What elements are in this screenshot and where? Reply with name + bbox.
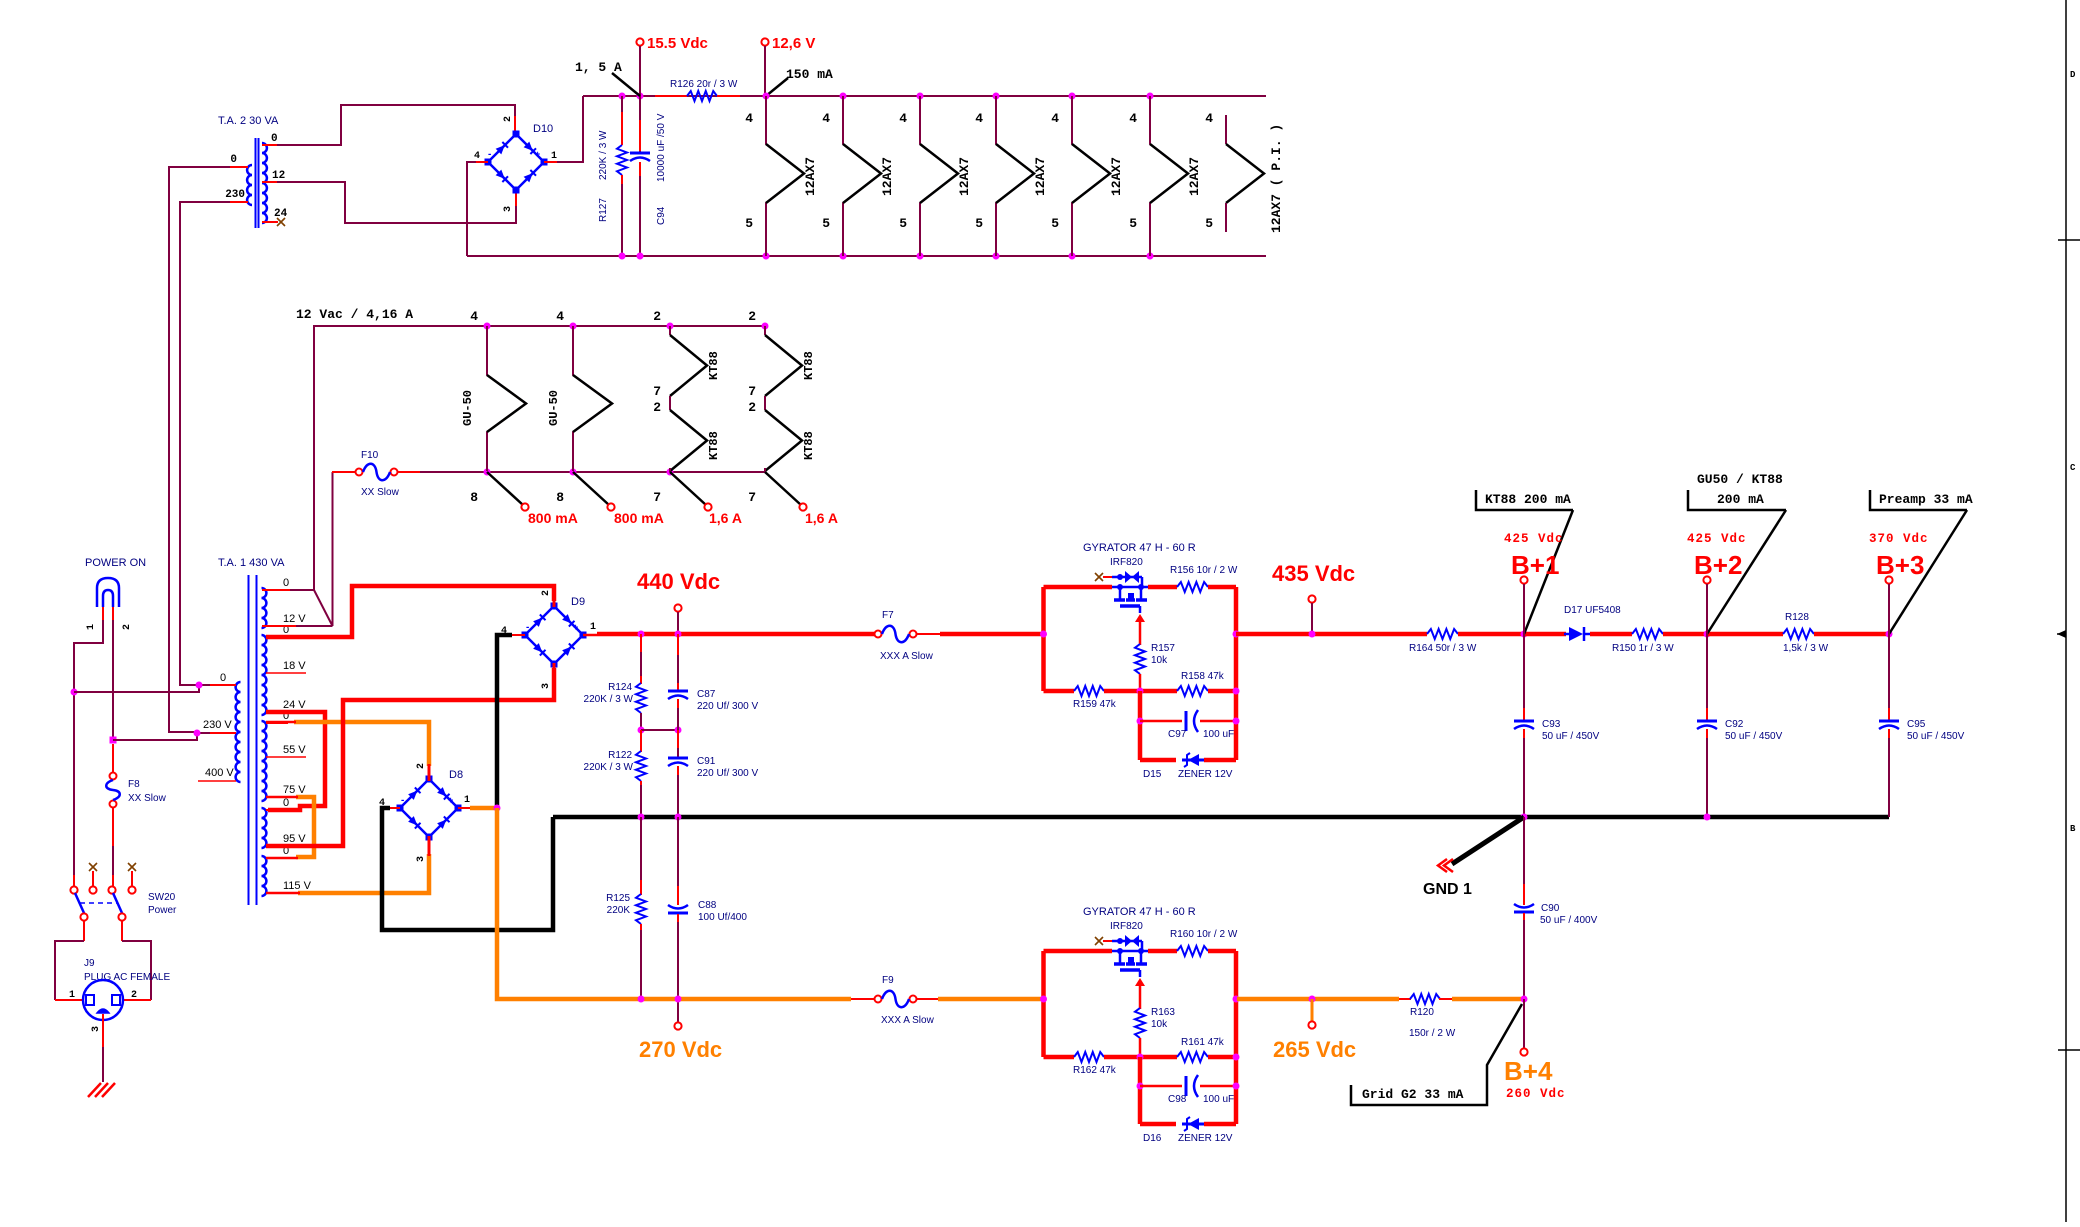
svg-text:+: + xyxy=(448,795,453,805)
svg-text:1,5k / 3 W: 1,5k / 3 W xyxy=(1783,643,1829,654)
svg-text:15.5 Vdc: 15.5 Vdc xyxy=(647,35,708,52)
lamp POWER ON xyxy=(97,578,119,607)
terminal current KT88 #2 xyxy=(799,503,806,510)
junction C88 at orange bus xyxy=(675,996,682,1003)
wire gyrator1 cap rail right xyxy=(1200,720,1236,723)
svg-text:R161 47k: R161 47k xyxy=(1181,1037,1225,1048)
transistor IRF820 gyrator 1 xyxy=(1112,577,1148,599)
wire 24V tap series jumper to G4-0 (thick red) xyxy=(266,712,325,810)
svg-text:KT88 200 mA: KT88 200 mA xyxy=(1485,492,1571,507)
svg-text:Power: Power xyxy=(148,905,177,916)
svg-text:2: 2 xyxy=(416,763,427,769)
svg-text:12AX7: 12AX7 xyxy=(1187,157,1202,196)
wire mid divider xyxy=(641,729,678,731)
svg-text:4: 4 xyxy=(822,111,830,126)
svg-text:KT88: KT88 xyxy=(707,351,721,380)
tube heater KT88 #2 lower xyxy=(765,410,802,471)
wire F8 line to T.A.1 230V tap xyxy=(113,733,197,740)
D10 pin 2 stub xyxy=(514,116,516,136)
svg-text:POWER ON: POWER ON xyxy=(85,557,146,569)
svg-text:100 uF: 100 uF xyxy=(1203,1094,1234,1105)
junction 12AX7 heater 5 pin4 xyxy=(1069,93,1076,100)
wire lamp pin2 down to F8 xyxy=(112,620,114,740)
svg-text:T.A. 2 30 VA: T.A. 2 30 VA xyxy=(218,115,279,127)
bridge rectifier D9 xyxy=(525,606,583,664)
wire G3-0 tap to D8 pin2 (orange) xyxy=(294,722,429,766)
wire gyrator1 top rail left xyxy=(1044,585,1113,590)
junction D8 pin1 / D9 pin4 node xyxy=(494,805,501,812)
wire 115V tap to D8 pin3 (orange) xyxy=(298,854,429,893)
junction lamp line / TA1-0 line xyxy=(71,689,78,696)
wire R120 to B+4 xyxy=(1452,997,1524,1002)
pointer line 1,5A xyxy=(612,73,640,96)
tube heater KT88 #1 upper xyxy=(669,326,671,335)
svg-text:4: 4 xyxy=(474,151,480,162)
junction 12AX7 heater 3 pin4 xyxy=(917,93,924,100)
gate arrow gyrator2 xyxy=(1135,978,1145,986)
svg-text:440 Vdc: 440 Vdc xyxy=(637,569,720,594)
junction mid divider right xyxy=(675,727,682,734)
svg-text:115 V: 115 V xyxy=(283,880,312,892)
svg-text:R124: R124 xyxy=(608,682,632,693)
capacitor C90 50uF/400V xyxy=(1514,911,1534,914)
svg-text:KT88: KT88 xyxy=(802,431,816,460)
svg-text:F9: F9 xyxy=(882,975,894,986)
junction B+2 node xyxy=(1704,631,1711,638)
wire SW20 to J9 pin2 xyxy=(122,941,151,1000)
junction R124 top xyxy=(638,631,645,638)
svg-text:0: 0 xyxy=(283,797,289,809)
wire current tap KT88 #1 xyxy=(670,472,706,505)
svg-text:8: 8 xyxy=(556,490,564,505)
fuse F7 xyxy=(875,631,882,638)
T.A.1 secondary winding G4 (95V) xyxy=(262,808,267,848)
terminal current GU-50 #2 xyxy=(607,503,614,510)
resistor R158 47k xyxy=(1177,686,1208,696)
junction 440Vdc terminal xyxy=(675,631,682,638)
svg-text:T.A. 1 430 VA: T.A. 1 430 VA xyxy=(218,557,285,569)
wire B+1 terminal stub xyxy=(1523,584,1525,634)
svg-text:1: 1 xyxy=(69,990,75,1001)
wire gyrator1 left vertical xyxy=(1041,587,1046,691)
junction B+4 node xyxy=(1521,996,1528,1003)
junction R127 top xyxy=(619,93,626,100)
junction 12AX7 heater 1 pin4 xyxy=(763,93,770,100)
zener diode D15 12V xyxy=(1182,759,1204,762)
earth ground symbol xyxy=(88,1083,115,1097)
resistor R120 150r/2W xyxy=(1410,994,1440,1004)
T.A.1 primary 230V tap stub xyxy=(197,732,210,734)
svg-text:4: 4 xyxy=(470,309,478,324)
D10 pin 3 stub xyxy=(515,188,517,206)
wire G2-0 tap to D9 pin2 (thick red) xyxy=(266,586,554,637)
wire lamp line to T.A.1 0 tap xyxy=(74,685,199,692)
junction 435Vdc terminal xyxy=(1309,631,1316,638)
svg-text:10k: 10k xyxy=(1151,655,1168,666)
svg-text:F7: F7 xyxy=(882,610,894,621)
tube heater 12AX7 #1 xyxy=(766,96,804,256)
wire B+2 to R128 xyxy=(1707,632,1783,637)
svg-text:C90: C90 xyxy=(1541,903,1560,914)
svg-text:3: 3 xyxy=(503,206,514,212)
wire D17 to R150 xyxy=(1590,632,1632,637)
wire orange 270Vdc bus down and right xyxy=(497,808,851,999)
svg-text:R157: R157 xyxy=(1151,643,1175,654)
terminal B+2 xyxy=(1703,576,1710,583)
junction gyrator2 divider xyxy=(1137,1054,1144,1061)
wire 95V tap to D9 pin3 (thick red) xyxy=(266,668,554,846)
terminal 15.5 Vdc xyxy=(636,38,643,45)
wire C87 to mid node xyxy=(677,708,679,730)
svg-text:220 Uf/ 300 V: 220 Uf/ 300 V xyxy=(697,701,758,712)
junction GND node at black bus xyxy=(1521,814,1528,821)
transformer T.A.2 core xyxy=(255,138,257,228)
wire R122 to black bus xyxy=(640,785,642,817)
wire R150 to B+2 xyxy=(1663,632,1707,637)
svg-text:XXX A Slow: XXX A Slow xyxy=(881,1015,935,1026)
wire gyrator2 mid vertical xyxy=(1138,1057,1143,1124)
svg-text:XX Slow: XX Slow xyxy=(128,793,167,804)
pointer line 150mA xyxy=(766,78,788,96)
wire 12Vac top bus xyxy=(314,326,765,590)
svg-text:12,6 V: 12,6 V xyxy=(772,35,815,52)
wire T.A.2 primary 0 down to T.A.1 230V node xyxy=(169,167,230,732)
svg-text:8: 8 xyxy=(470,490,478,505)
svg-text:4: 4 xyxy=(1051,111,1059,126)
transformer T.A.2 secondary winding xyxy=(262,143,267,223)
svg-text:100 Uf/400: 100 Uf/400 xyxy=(698,912,747,923)
svg-text:GU-50: GU-50 xyxy=(461,390,475,426)
svg-text:SW20: SW20 xyxy=(148,892,176,903)
connector J9 PLUG AC FEMALE xyxy=(83,980,123,1020)
wire gyrator2 bottom rail mid xyxy=(1104,1055,1177,1060)
svg-text:265 Vdc: 265 Vdc xyxy=(1273,1037,1356,1062)
T.A.2 primary 0 tap stub xyxy=(230,166,248,168)
junction gyrator1 divider xyxy=(1137,688,1144,695)
junction 12AX7 heater 6 pin4 xyxy=(1147,93,1154,100)
junction C91 at black bus xyxy=(675,814,682,821)
wire B+4 stub down xyxy=(1523,999,1525,1048)
wire orange bus F9 to gyrator2 xyxy=(938,997,1044,1002)
svg-text:C93: C93 xyxy=(1542,719,1561,730)
tube heater GU-50 #1 xyxy=(487,326,526,471)
diode D17 UF5408 xyxy=(1569,627,1583,641)
svg-text:0: 0 xyxy=(220,672,226,684)
svg-text:55 V: 55 V xyxy=(283,744,306,756)
svg-text:1: 1 xyxy=(86,624,97,630)
wire gyrator2 top rail right xyxy=(1208,949,1236,954)
wire 75V tap series jumper to G5-0 (orange) xyxy=(296,797,314,857)
svg-text:1, 5 A: 1, 5 A xyxy=(575,60,622,75)
svg-text:C88: C88 xyxy=(698,900,717,911)
wire C95 top lead xyxy=(1888,634,1890,714)
flag B+3 xyxy=(1870,490,1967,510)
wire 15.5Vdc terminal to bus xyxy=(639,46,641,96)
wire current tap GU-50 #1 xyxy=(487,472,523,505)
svg-text:B+4: B+4 xyxy=(1504,1056,1553,1086)
svg-text:7: 7 xyxy=(653,490,661,505)
junction C94 top xyxy=(637,93,644,100)
wire B+1 to D17 xyxy=(1524,632,1566,637)
ground GND 1 arrow xyxy=(1452,817,1524,864)
bridge rectifier D10 xyxy=(488,134,544,190)
junction B+3 node xyxy=(1886,631,1893,638)
svg-text:50 uF / 450V: 50 uF / 450V xyxy=(1725,731,1783,742)
svg-text:5: 5 xyxy=(899,216,907,231)
svg-text:425 Vdc: 425 Vdc xyxy=(1504,532,1564,546)
wire R164 to B+1 xyxy=(1458,632,1524,637)
svg-text:260 Vdc: 260 Vdc xyxy=(1506,1087,1566,1101)
junction gyrator2 rail right xyxy=(1233,1054,1240,1061)
resistor R157 10k xyxy=(1135,644,1145,674)
junction T.A.1 primary 0 xyxy=(196,682,203,689)
svg-text:7: 7 xyxy=(748,490,756,505)
svg-text:J9: J9 xyxy=(84,958,95,969)
gate arrow gyrator1 xyxy=(1135,614,1145,622)
SW20 blade 1 xyxy=(75,893,84,913)
tube heater GU-50 #2 xyxy=(573,326,612,471)
wire gyrator2 top rail mid xyxy=(1148,949,1177,954)
wire gyrator1 zener rail right xyxy=(1204,758,1236,763)
svg-text:2: 2 xyxy=(131,990,137,1001)
svg-text:1: 1 xyxy=(464,795,470,806)
wire gyrator1 bottom rail mid xyxy=(1104,689,1177,694)
wire gyrator2 zener rail left xyxy=(1140,1122,1176,1127)
wire red bus F7 to gyrator1 xyxy=(940,632,1043,637)
resistor R122 220K/3W xyxy=(636,751,646,781)
svg-text:5: 5 xyxy=(1129,216,1137,231)
junction KT88 #1 pin7 xyxy=(667,469,674,476)
svg-text:18 V: 18 V xyxy=(283,660,306,672)
capacitor C98 100uF xyxy=(1185,1076,1188,1096)
svg-text:XX Slow: XX Slow xyxy=(361,487,400,498)
junction 12AX7 heater 4 pin5 xyxy=(993,253,1000,260)
capacitor C87 220uF/300V xyxy=(668,690,688,693)
tube heater 12AX7 (P.I.) stub xyxy=(1225,115,1227,144)
T.A.2 secondary 12 tap stub xyxy=(262,181,277,183)
svg-text:12AX7: 12AX7 xyxy=(1033,157,1048,196)
svg-text:F10: F10 xyxy=(361,450,379,461)
junction gyrator1 cap right xyxy=(1233,718,1240,725)
svg-text:D10: D10 xyxy=(533,123,553,135)
terminal 12,6 V xyxy=(761,38,768,45)
wire C92 top lead xyxy=(1706,634,1708,714)
capacitor C97 100uF xyxy=(1185,711,1188,731)
wire R127 top lead xyxy=(621,96,623,143)
junction GU-50 #2 pin4 xyxy=(570,323,577,330)
tube heater 12AX7 #5 xyxy=(1072,96,1110,256)
svg-text:+: + xyxy=(535,149,540,159)
junction KT88 #1 pin2 xyxy=(667,323,674,330)
fuse F10 xyxy=(356,469,363,476)
svg-text:R162 47k: R162 47k xyxy=(1073,1065,1117,1076)
svg-text:50 uF / 450V: 50 uF / 450V xyxy=(1907,731,1965,742)
svg-text:IRF820: IRF820 xyxy=(1110,557,1143,568)
wire D8 pin1 to orange node xyxy=(470,806,497,811)
wire R128 to B+3 xyxy=(1814,632,1889,637)
T.A.1 primary winding xyxy=(236,682,241,782)
resistor R125 220K xyxy=(636,894,646,924)
svg-text:KT88: KT88 xyxy=(802,351,816,380)
wire C93 bottom lead xyxy=(1523,738,1525,817)
svg-text:D: D xyxy=(2070,70,2076,80)
wire gyrator2 bottom rail left xyxy=(1044,1055,1075,1060)
svg-text:800 mA: 800 mA xyxy=(614,510,664,526)
wire R125 to orange bus xyxy=(640,930,642,999)
wire black bus to R125 xyxy=(640,817,642,884)
resistor R162 47k xyxy=(1074,1052,1104,1062)
svg-text:435 Vdc: 435 Vdc xyxy=(1272,561,1355,586)
svg-text:ZENER 12V: ZENER 12V xyxy=(1178,769,1233,780)
wire R124 to mid node xyxy=(640,713,642,730)
svg-text:GND 1: GND 1 xyxy=(1423,881,1472,898)
junction lamp pin2 line at 230V wire xyxy=(110,737,117,744)
svg-text:2: 2 xyxy=(748,309,756,324)
wire T.A.2 primary 230 down to T.A.1 0 node xyxy=(180,202,230,685)
junction mid divider left xyxy=(638,727,645,734)
wire 12V tap to fuse branch xyxy=(280,625,333,627)
svg-text:C: C xyxy=(2070,463,2076,473)
wire C90 to B+4 node xyxy=(1523,920,1525,999)
svg-text:D15: D15 xyxy=(1143,769,1162,780)
svg-text:C91: C91 xyxy=(697,756,716,767)
capacitor C92 50 uF / 450V xyxy=(1697,720,1717,723)
svg-text:D17 UF5408: D17 UF5408 xyxy=(1564,605,1621,616)
svg-text:1,6 A: 1,6 A xyxy=(805,510,838,526)
svg-text:GYRATOR 47 H - 60 R: GYRATOR 47 H - 60 R xyxy=(1083,906,1196,918)
tube heater 12AX7 #2 xyxy=(843,96,881,256)
wire 12,6V terminal to bus xyxy=(764,46,766,96)
svg-text:R126 20r / 3 W: R126 20r / 3 W xyxy=(670,79,738,90)
wire gyrator2 top rail left xyxy=(1044,949,1113,954)
svg-text:50 uF / 450V: 50 uF / 450V xyxy=(1542,731,1600,742)
svg-text:7: 7 xyxy=(748,384,756,399)
svg-text:2: 2 xyxy=(122,624,133,630)
terminal B+4 xyxy=(1520,1048,1527,1055)
bridge rectifier D8 xyxy=(400,779,458,837)
svg-text:IRF820: IRF820 xyxy=(1110,921,1143,932)
svg-text:4: 4 xyxy=(899,111,907,126)
wire black bus to C88 xyxy=(677,817,679,890)
wire D10 pin1 up to heater supply bus xyxy=(557,96,583,162)
wire C88 through orange bus to 270Vdc terminal xyxy=(677,922,679,1022)
wire gyrator2 zener rail right xyxy=(1204,1122,1236,1127)
D10 pin 1 stub xyxy=(544,161,557,163)
flag B+2 xyxy=(1688,490,1786,510)
svg-text:5: 5 xyxy=(1051,216,1059,231)
junction 12AX7 heater 4 pin4 xyxy=(993,93,1000,100)
svg-text:-: - xyxy=(526,622,529,633)
svg-text:4: 4 xyxy=(745,111,753,126)
junction GU-50 #1 pin8 xyxy=(484,469,491,476)
svg-text:4: 4 xyxy=(1129,111,1137,126)
terminal current GU-50 #1 xyxy=(521,503,528,510)
transistor IRF820 gyrator 2 xyxy=(1112,941,1148,963)
junction C94 bottom xyxy=(637,253,644,260)
fuse F9 xyxy=(875,996,882,1003)
T.A.2 secondary 0 tap stub xyxy=(262,144,277,146)
svg-text:220K: 220K xyxy=(607,905,631,916)
svg-text:XXX A Slow: XXX A Slow xyxy=(880,651,934,662)
wire R127 bottom lead xyxy=(621,175,623,256)
wire current tap GU-50 #2 xyxy=(573,472,609,505)
svg-text:R164 50r / 3 W: R164 50r / 3 W xyxy=(1409,643,1477,654)
resistor R160 10r/2W xyxy=(1177,946,1208,956)
svg-text:R128: R128 xyxy=(1785,612,1809,623)
svg-text:220 Uf/ 300 V: 220 Uf/ 300 V xyxy=(697,768,758,779)
zener diode D16 12V xyxy=(1182,1123,1204,1126)
SW20 pole 1 contact xyxy=(70,886,77,893)
terminal 270 Vdc xyxy=(674,1022,681,1029)
gate test X gyrator2 xyxy=(1095,937,1103,945)
tube heater 12AX7 #6 xyxy=(1150,96,1188,256)
wire C92 bottom lead xyxy=(1706,738,1708,817)
svg-text:2: 2 xyxy=(748,400,756,415)
wire J9 pin3 to earth xyxy=(102,1047,104,1082)
wire gyrator1 cap rail left xyxy=(1140,720,1182,723)
wire gyrator2 cap rail left xyxy=(1140,1085,1182,1088)
svg-text:3: 3 xyxy=(91,1026,102,1032)
wire heater supply bus 15.5V xyxy=(583,95,1266,97)
svg-text:R150 1r / 3 W: R150 1r / 3 W xyxy=(1612,643,1674,654)
resistor R156 10r/2W xyxy=(1177,582,1208,592)
svg-text:1: 1 xyxy=(551,151,557,162)
junction R125 at orange bus xyxy=(638,996,645,1003)
junction gyrator2 input xyxy=(1040,996,1047,1003)
svg-text:4: 4 xyxy=(1205,111,1213,126)
resistor R159 47k xyxy=(1074,686,1104,696)
wire SW20 to J9 pin1 xyxy=(55,941,84,1000)
capacitor C95 50 uF / 450V xyxy=(1879,720,1899,723)
svg-text:R160 10r / 2 W: R160 10r / 2 W xyxy=(1170,929,1238,940)
svg-text:100 uF: 100 uF xyxy=(1203,729,1234,740)
wire gyrator1 bottom rail right xyxy=(1208,689,1236,694)
resistor R164 50r/3W xyxy=(1427,629,1458,639)
wire to C87 xyxy=(677,655,679,690)
junction 265Vdc terminal xyxy=(1309,996,1316,1003)
wire 12Vac fuse branch vertical xyxy=(332,472,334,626)
terminal B+3 xyxy=(1885,576,1892,583)
junction 12AX7 heater 5 pin5 xyxy=(1069,253,1076,260)
svg-text:5: 5 xyxy=(822,216,830,231)
terminal B+1 xyxy=(1520,576,1527,583)
transformer T.A.1 core xyxy=(248,575,250,905)
wire gyrator1 mid vertical xyxy=(1138,691,1143,760)
terminal 265 Vdc xyxy=(1308,1021,1315,1028)
wire 440Vdc terminal to bus xyxy=(677,612,679,634)
svg-text:B+2: B+2 xyxy=(1694,550,1742,580)
junction gyrator2 cap left xyxy=(1137,1083,1144,1090)
wire heater bottom bus GU50/KT88 xyxy=(420,471,765,473)
svg-text:B: B xyxy=(2070,824,2076,834)
flag Grid G2 33 mA xyxy=(1351,1004,1522,1105)
junction B+1 node xyxy=(1521,631,1528,638)
svg-text:10k: 10k xyxy=(1151,1019,1168,1030)
resistor R127 220K/3W xyxy=(617,145,627,175)
D10 pin 4 stub xyxy=(476,161,488,163)
svg-text:Preamp 33 mA: Preamp 33 mA xyxy=(1879,492,1973,507)
svg-text:1: 1 xyxy=(590,622,596,633)
junction gyrator2 output xyxy=(1233,996,1240,1003)
svg-text:GYRATOR 47 H - 60 R: GYRATOR 47 H - 60 R xyxy=(1083,542,1196,554)
svg-text:10000 uF /50 V: 10000 uF /50 V xyxy=(656,113,667,182)
svg-text:3: 3 xyxy=(541,683,552,689)
svg-text:0: 0 xyxy=(271,133,278,145)
svg-text:ZENER 12V: ZENER 12V xyxy=(1178,1133,1233,1144)
wire diagonal jog 12Vac xyxy=(314,590,333,626)
wire 435Vdc terminal stub xyxy=(1311,603,1313,634)
wire heater return bus xyxy=(467,255,1266,257)
